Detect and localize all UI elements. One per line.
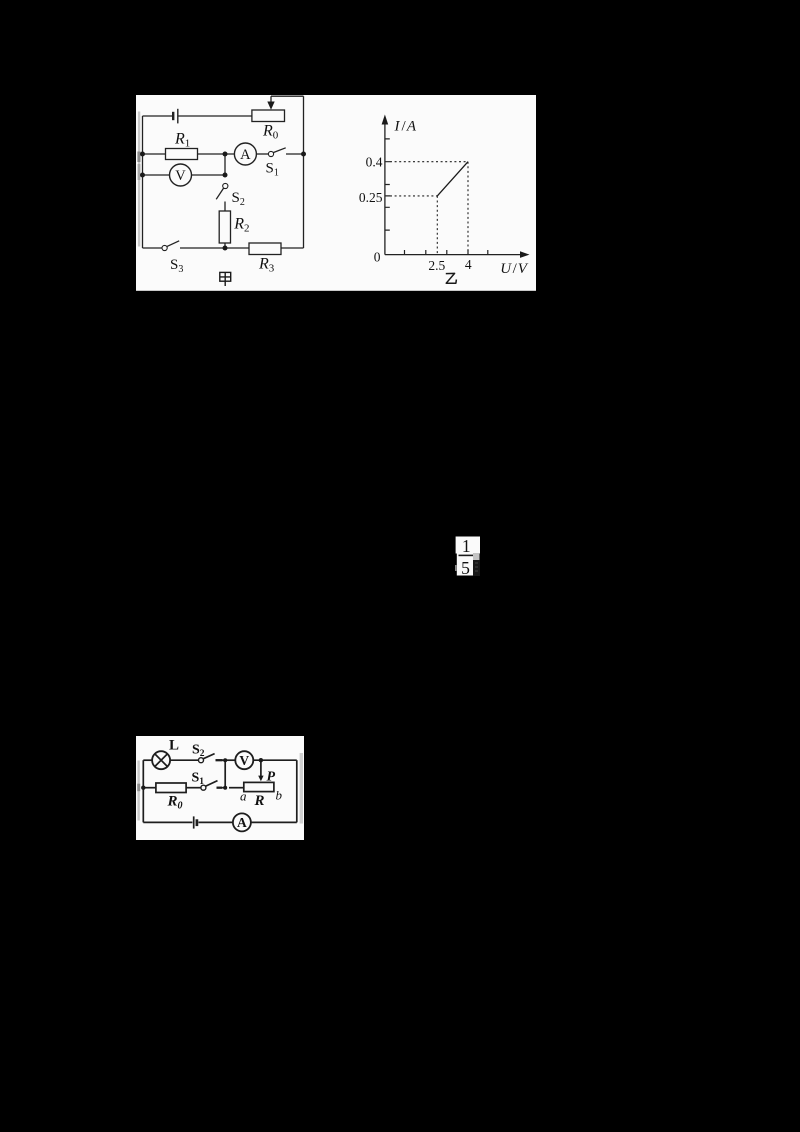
svg-text:R: R	[253, 793, 264, 809]
svg-text:V: V	[175, 168, 186, 184]
svg-text:5: 5	[461, 558, 470, 576]
svg-text:a: a	[239, 788, 246, 803]
svg-text:2.5: 2.5	[428, 258, 445, 273]
svg-text:1: 1	[462, 536, 471, 556]
svg-text:L: L	[169, 737, 179, 753]
svg-text:4: 4	[464, 257, 471, 272]
svg-text:V: V	[239, 753, 249, 768]
svg-text:0: 0	[373, 250, 380, 265]
svg-text:A: A	[237, 815, 247, 830]
svg-text:U/V: U/V	[500, 261, 529, 277]
svg-text:0.4: 0.4	[365, 154, 382, 169]
svg-text:b: b	[275, 787, 282, 802]
svg-text:A: A	[240, 147, 251, 163]
svg-text:P: P	[266, 769, 275, 784]
svg-text:0.25: 0.25	[358, 190, 382, 205]
svg-text:I/A: I/A	[393, 119, 416, 135]
